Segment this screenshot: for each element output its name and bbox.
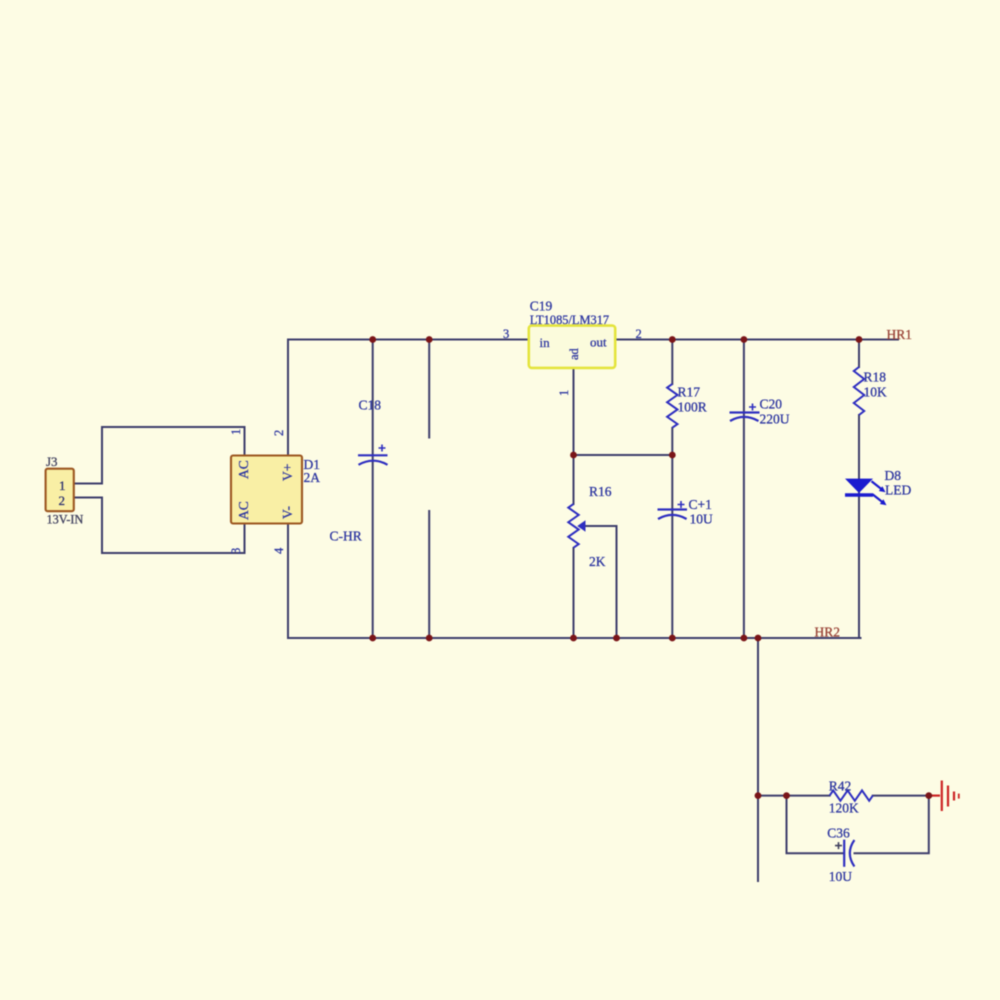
svg-text:C36: C36 [827, 826, 850, 841]
wire R16 wiper arm [585, 526, 617, 638]
node adj right [669, 452, 676, 459]
wire C20 branch [743, 340, 745, 639]
svg-text:120K: 120K [829, 801, 859, 816]
wire left vertical rail through D1 [287, 340, 289, 639]
wiper arrow R16 [577, 520, 585, 531]
svg-text:10U: 10U [690, 512, 714, 527]
svg-text:10K: 10K [864, 385, 888, 400]
node bottom rail C20 [741, 635, 748, 642]
wire R42 row right [873, 795, 929, 797]
node R42 left [755, 792, 762, 799]
svg-text:R17: R17 [678, 385, 701, 400]
wire C36 loop left and bottom [787, 796, 845, 854]
node C36 left [783, 792, 790, 799]
svg-text:V+: V+ [280, 464, 295, 481]
plus sign C36 [835, 842, 842, 849]
svg-text:D8: D8 [885, 468, 902, 483]
ground [929, 781, 959, 812]
wire broken vertical upper segment [428, 340, 430, 438]
capacitor C20 [730, 413, 760, 422]
svg-text:4: 4 [272, 547, 286, 554]
connector J3 [46, 469, 74, 512]
node bottom rail wiper [613, 635, 620, 642]
wire R17 to C+1 branch [671, 428, 673, 638]
node bottom rail stub [755, 635, 762, 642]
svg-text:10U: 10U [829, 869, 853, 884]
svg-text:2: 2 [636, 327, 642, 341]
svg-text:R16: R16 [589, 484, 612, 499]
svg-text:C-HR: C-HR [330, 529, 362, 544]
node bottom rail R16 [570, 635, 577, 642]
node top rail C18 [369, 336, 376, 343]
svg-text:100R: 100R [678, 400, 707, 415]
svg-text:LT1085/LM317: LT1085/LM317 [530, 313, 609, 327]
wire broken vertical lower segment [428, 511, 430, 638]
resistor R18 [854, 367, 864, 415]
potentiometer R16 [568, 504, 578, 548]
svg-text:in: in [540, 335, 551, 350]
node top rail R17 [669, 336, 676, 343]
wire R17 branch upper [671, 340, 673, 385]
svg-text:1: 1 [59, 478, 66, 493]
node bottom rail broken wire [426, 635, 433, 642]
node top rail C20 [741, 336, 748, 343]
svg-text:AC: AC [236, 501, 251, 520]
svg-text:C18: C18 [359, 398, 382, 413]
node adj left [570, 452, 577, 459]
svg-text:ad: ad [567, 347, 581, 360]
wire R16 branch lower [573, 548, 575, 638]
node bottom rail C+1 [669, 635, 676, 642]
svg-text:3: 3 [503, 327, 509, 341]
wire J3 pin1 to D1 pin1 [74, 427, 245, 484]
wire C19 adj pin down [573, 368, 575, 455]
svg-text:2K: 2K [589, 554, 606, 569]
svg-text:R18: R18 [864, 370, 887, 385]
wire HR2 stub down [757, 638, 759, 881]
LED D8 [845, 479, 887, 506]
svg-text:C+1: C+1 [689, 497, 712, 512]
plus sign C18 [379, 445, 386, 452]
plus sign C+1 [678, 501, 685, 508]
wire bottom rail HR2 [288, 637, 861, 639]
wire R42 row left [758, 795, 830, 797]
svg-text:C19: C19 [530, 299, 553, 314]
label D1 2A [304, 457, 321, 485]
wire adj node horizontal [574, 454, 673, 456]
regulator U C19 [529, 326, 615, 368]
svg-text:13V-IN: 13V-IN [47, 513, 84, 527]
svg-text:AC: AC [236, 460, 251, 479]
bridge rectifier D1 [231, 456, 302, 524]
svg-text:2: 2 [272, 430, 286, 436]
svg-text:1: 1 [229, 429, 243, 435]
capacitor C+1 [658, 510, 688, 520]
svg-text:out: out [590, 335, 607, 350]
node bottom rail C18 [369, 635, 376, 642]
svg-text:2: 2 [59, 493, 66, 508]
svg-text:R42: R42 [829, 779, 852, 794]
svg-text:LED: LED [885, 483, 911, 498]
svg-text:1: 1 [557, 390, 571, 396]
svg-text:3: 3 [229, 548, 243, 554]
svg-text:J3: J3 [46, 454, 58, 469]
wire R18 LED branch upper [858, 340, 860, 368]
wire top rail [288, 339, 898, 341]
node ground [925, 792, 932, 799]
node top rail broken wire [426, 336, 433, 343]
capacitor C18 [358, 455, 388, 465]
svg-text:220U: 220U [760, 412, 790, 427]
wire J3 pin2 to D1 pin3 [74, 498, 245, 554]
capacitor C36 [844, 840, 854, 867]
resistor R17 [667, 384, 677, 428]
svg-text:C20: C20 [760, 397, 783, 412]
svg-text:HR2: HR2 [815, 625, 841, 640]
wire R18 LED branch lower [858, 415, 860, 638]
svg-text:HR1: HR1 [887, 327, 913, 342]
svg-text:V-: V- [280, 505, 295, 519]
wire R16 branch upper [573, 455, 575, 504]
plus sign C20 [749, 404, 756, 411]
svg-text:2A: 2A [304, 470, 321, 485]
resistor R42 [830, 790, 873, 800]
node top rail R18 [856, 336, 863, 343]
wire C36 loop bottom right [855, 796, 929, 854]
wire C18 branch [372, 340, 374, 639]
